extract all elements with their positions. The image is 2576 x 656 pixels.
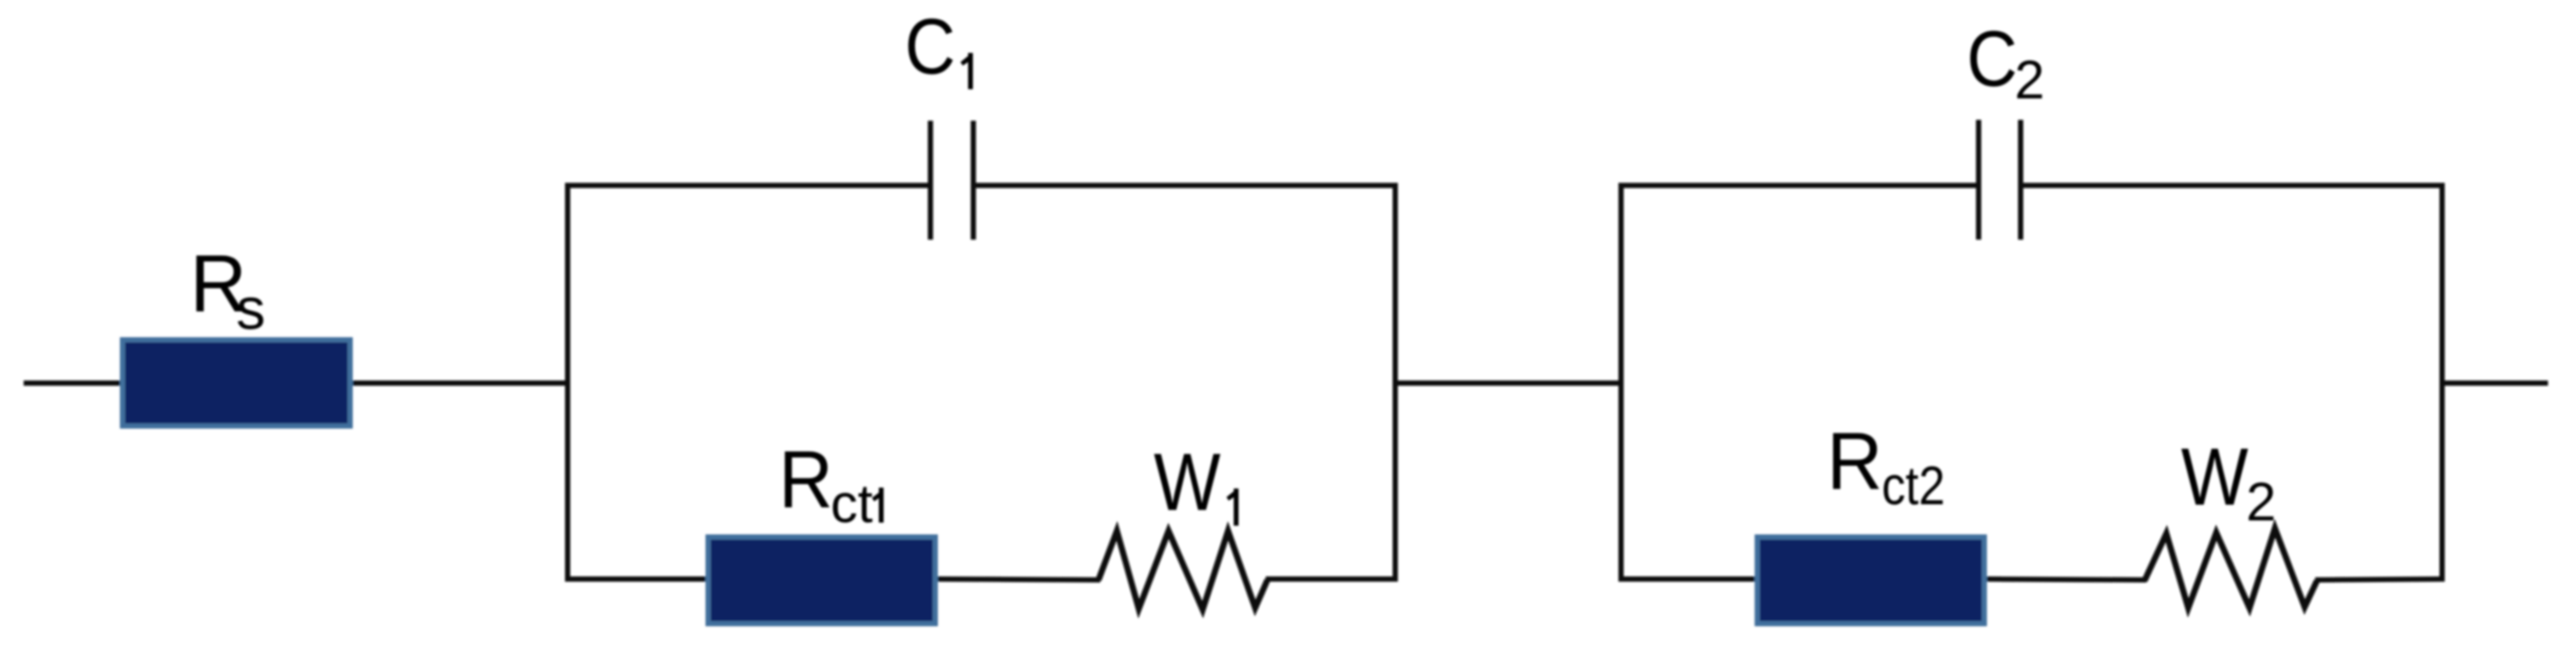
node B: loop 1 right vertical [1393,183,1398,582]
wire: loop 2 top left [1618,183,1979,188]
warburg element W2 (zigzag) [2144,528,2317,608]
label W2 [2181,431,2277,533]
node A: loop 1 left vertical [565,183,571,582]
node D: loop 2 right vertical [2439,183,2445,582]
wire: left input terminal [24,380,123,386]
node C: loop 2 left vertical [1618,183,1624,582]
capacitor C1 right plate [971,121,976,240]
wire: right output terminal [2442,380,2548,386]
wire: loop 1 top left [565,183,931,188]
svg-text:2: 2 [2015,51,2045,111]
label C2 [1967,16,2045,111]
label C1 [905,3,973,91]
svg-text:R: R [1827,415,1883,506]
label Rs [190,238,265,342]
wire: loop 2 bottom left [1618,576,1757,582]
wire: Rs to node A [350,380,570,386]
wire: loop 1 top right [973,183,1398,188]
svg-text:C: C [1967,16,2018,103]
warburg element W1 (zigzag) [1098,531,1267,610]
wire: loop 2 top right [2021,183,2446,188]
resistor Rct2 [1758,537,1984,624]
wire: Rct1 to W1 [936,579,1100,580]
svg-text:s: s [236,276,266,342]
svg-text:ct2: ct2 [1882,457,1946,517]
resistor Rs [123,340,350,427]
svg-text:C: C [905,3,956,91]
svg-text:W: W [2181,431,2249,522]
label W1 [1154,436,1239,527]
svg-text:R: R [779,434,833,525]
capacitor C1 left plate [928,121,933,240]
wire: loop 1 bottom left [565,576,709,582]
label Rct1 [779,434,884,534]
wire: node B to node C [1395,380,1624,386]
wire: Rct2 to W2 [1985,579,2146,580]
svg-text:W: W [1154,436,1221,527]
svg-text:2: 2 [2246,472,2276,533]
svg-text:ct: ct [831,474,873,534]
capacitor C2 right plate [2018,120,2024,240]
label Rct2 [1827,415,1945,517]
resistor Rct1 [708,537,936,624]
wire: W2 to node D [2315,579,2445,580]
capacitor C2 left plate [1976,120,1982,240]
wire: W1 to node B [1266,576,1398,582]
